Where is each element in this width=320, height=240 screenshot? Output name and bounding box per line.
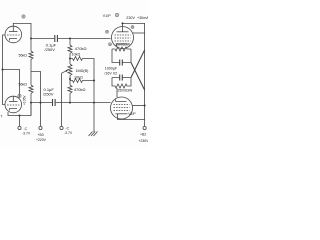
svg-text:1000µF: 1000µF bbox=[105, 66, 118, 70]
svg-text:-3.7V: -3.7V bbox=[64, 131, 73, 135]
svg-text:+230V: +230V bbox=[139, 139, 149, 143]
svg-text:/250V: /250V bbox=[43, 92, 54, 97]
svg-text:+220V: +220V bbox=[36, 138, 47, 142]
svg-text:-3.7V: -3.7V bbox=[22, 132, 31, 136]
svg-text:+105V: +105V bbox=[22, 95, 26, 105]
svg-text:10kΩ: 10kΩ bbox=[74, 76, 83, 80]
svg-text:470kΩ: 470kΩ bbox=[74, 87, 86, 92]
svg-text:+B3: +B3 bbox=[38, 133, 44, 137]
svg-text:470kΩ: 470kΩ bbox=[75, 46, 87, 51]
svg-text:10kΩ: 10kΩ bbox=[72, 53, 81, 57]
svg-text:-C: -C bbox=[24, 127, 28, 131]
svg-text:V2/P: V2/P bbox=[128, 112, 136, 116]
svg-text:56kΩ: 56kΩ bbox=[19, 83, 28, 87]
svg-text:-C: -C bbox=[66, 126, 70, 130]
svg-text:/16V X2: /16V X2 bbox=[104, 71, 117, 75]
svg-text:T: T bbox=[1, 115, 3, 119]
svg-text:V1/P: V1/P bbox=[103, 14, 111, 18]
svg-text:/250V: /250V bbox=[45, 47, 56, 52]
svg-text:1MΩ(B): 1MΩ(B) bbox=[76, 69, 89, 73]
svg-text:230V +30mA: 230V +30mA bbox=[126, 16, 148, 20]
svg-text:2500Ω3W: 2500Ω3W bbox=[118, 88, 134, 92]
svg-text:+B2: +B2 bbox=[140, 133, 146, 137]
svg-text:56kΩ: 56kΩ bbox=[19, 53, 28, 57]
svg-text:2500Ω3W: 2500Ω3W bbox=[115, 43, 131, 47]
